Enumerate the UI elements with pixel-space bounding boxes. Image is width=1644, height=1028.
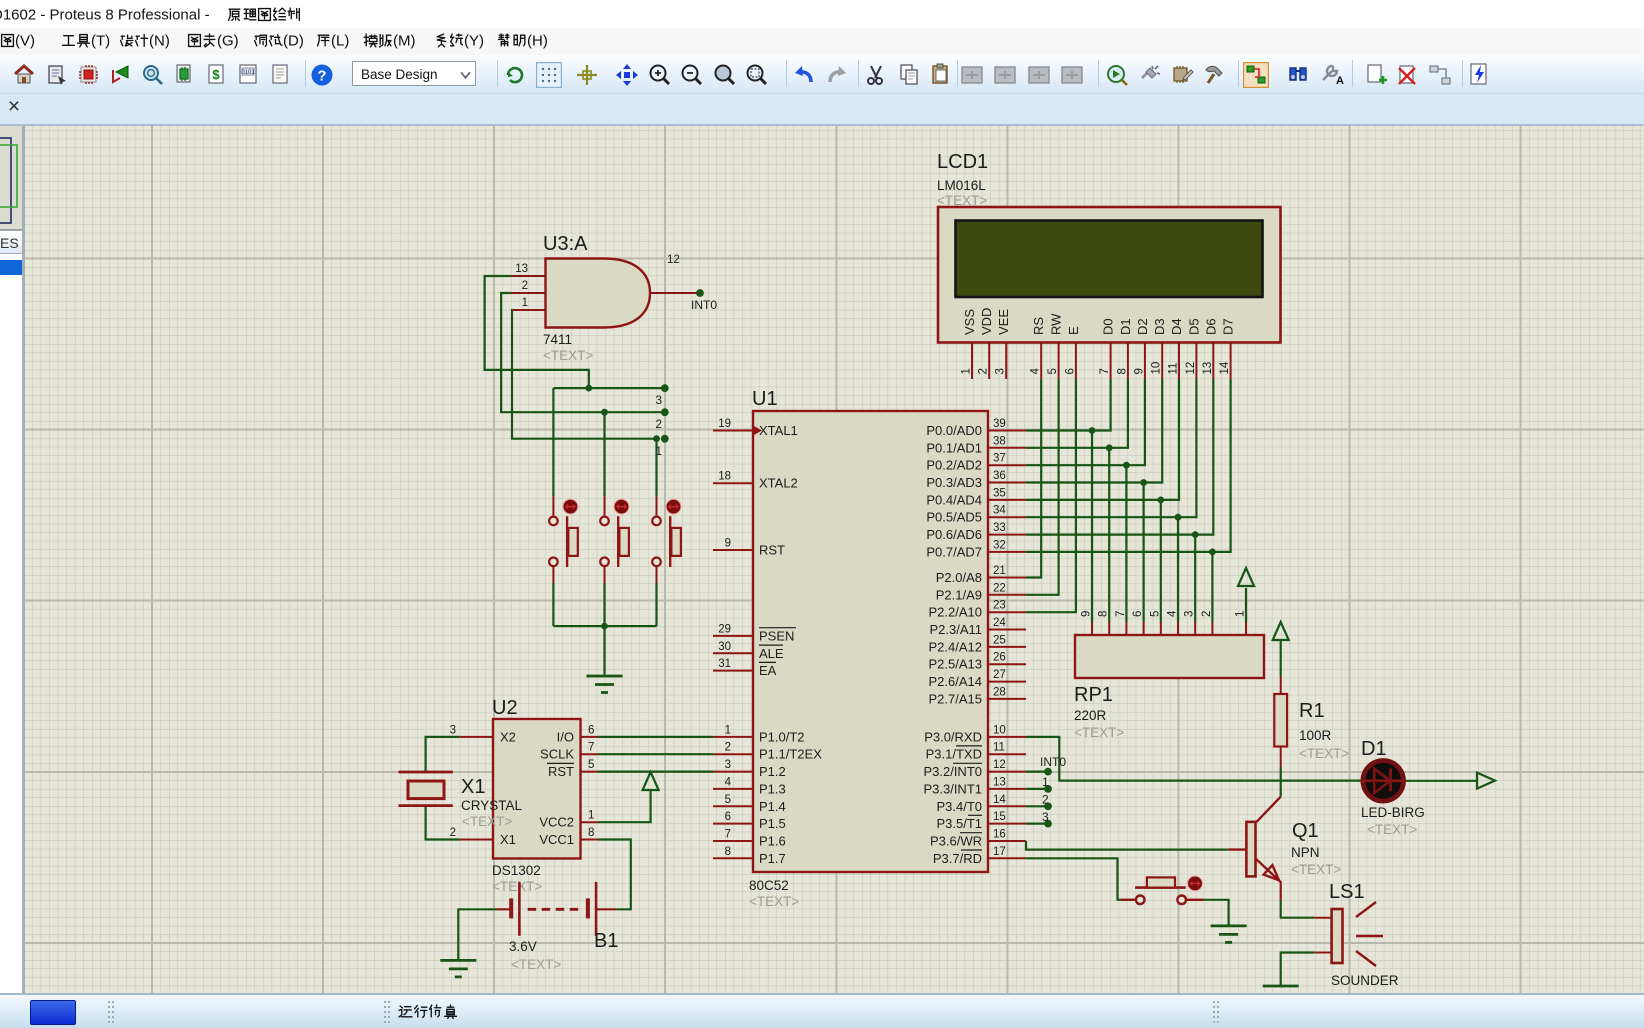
junction net3 [585,385,592,392]
svg-text:P2.3/A11: P2.3/A11 [929,622,982,637]
pin 6 P1.5 [713,811,786,831]
svg-text:8: 8 [725,846,731,858]
svg-text:E: E [1066,326,1081,335]
ground SW4 [1211,926,1247,943]
pin 39 P0.0/AD0 [926,418,1026,438]
pin 8 D1 [1116,318,1133,379]
resistor R1 100R [1274,640,1349,767]
svg-text:RW: RW [1049,313,1064,335]
svg-text:LED-BIRG: LED-BIRG [1361,805,1425,820]
LCD screen [956,221,1263,298]
wire P2.1 to LCD RW [1026,379,1059,595]
svg-text:P0.3/AD3: P0.3/AD3 [926,475,982,490]
wire bus to ground [603,626,605,675]
svg-text:$: $ [212,67,220,82]
pin 22 P2.1/A9 [936,582,1026,602]
pin 17 P3.7/RD [933,846,1026,866]
node terminal 1 [661,435,669,443]
pin 35 P0.4/AD4 [926,487,1026,507]
node output arrow [1477,773,1495,789]
wire VCC1 to battery [598,840,631,910]
pin 24 P2.3/A11 [929,617,1026,637]
svg-text:P2.7/A15: P2.7/A15 [929,691,983,706]
svg-text:18: 18 [718,471,731,483]
node terminal 1 [1044,785,1052,793]
svg-text:RS: RS [1031,317,1046,335]
svg-text:1: 1 [1235,611,1247,617]
svg-text:13: 13 [515,263,528,275]
svg-text:VCC2: VCC2 [539,815,574,830]
wire VCC2 to power [598,790,651,822]
svg-text:<TEXT>: <TEXT> [492,879,542,894]
node terminal 2 [661,408,669,416]
pin 9 D2 [1133,318,1150,379]
svg-text:30: 30 [718,641,731,653]
svg-text:37: 37 [993,453,1006,465]
LED D1 LED-BIRG [1361,738,1425,837]
wire LED to output arrow [1406,780,1477,782]
svg-text:P3.7/RD: P3.7/RD [933,851,982,866]
svg-text:LCD1: LCD1 [937,151,988,173]
svg-text:<TEXT>: <TEXT> [511,957,561,972]
wire SCLK to P1.1 [598,753,713,755]
svg-text:CRYSTAL: CRYSTAL [461,798,523,813]
pin 13 P3.3/INT1 [923,776,1026,796]
pin 23 P2.2/A10 [929,600,1027,620]
svg-text:(D): (D) [283,33,304,50]
wire net2 seg-b to button2 [603,412,605,496]
svg-text:35: 35 [993,487,1006,499]
svg-text:P1.3: P1.3 [759,781,786,796]
pin 28 P2.7/A15 [929,686,1027,706]
wire P3.6 to Q1 base [1026,841,1228,850]
pin 2 P1.1/T2EX [713,742,822,762]
overline RD [961,849,982,851]
pin 30 ALE [713,641,784,661]
wire RP1 pin9 vertical [1091,431,1093,623]
pin 5 P1.4 [713,794,786,814]
svg-text:5: 5 [725,794,731,806]
svg-text:B1: B1 [594,930,618,952]
wire P3.0 to LED D1 [1026,737,1361,781]
pin 8 P1.7 [713,846,786,866]
svg-text:I/O: I/O [557,729,574,744]
svg-text:(G): (G) [217,33,239,50]
svg-text:10: 10 [993,724,1006,736]
svg-text:P0.6/AD6: P0.6/AD6 [926,527,982,542]
svg-text:1: 1 [522,297,528,309]
svg-text:80C52: 80C52 [749,878,789,893]
svg-text:3: 3 [655,393,662,407]
crystal X1 [399,772,523,829]
pin 6 I/O [557,724,598,744]
junction D4/RP1 [1157,497,1164,504]
svg-text:P1.0/T2: P1.0/T2 [759,729,805,744]
svg-text:13: 13 [1202,362,1214,375]
wire button2 to bus [603,583,605,626]
wire P3.7 to SW4 [1026,858,1121,900]
pin 12 P3.2/INT0 [923,759,1026,779]
svg-text:3: 3 [450,724,456,736]
svg-text:4: 4 [725,776,732,788]
pin 3 X2 [450,724,516,744]
junction D6/RP1 [1192,531,1199,538]
svg-text:PSEN: PSEN [759,628,794,643]
svg-text:(V): (V) [15,33,35,50]
svg-text:9: 9 [1133,368,1145,374]
svg-text:?: ? [317,68,326,85]
svg-text:0101: 0101 [241,70,255,76]
svg-text:P0.2/AD2: P0.2/AD2 [926,458,982,473]
pin 2 [1201,611,1213,635]
overline TXD [956,745,982,747]
svg-text:ALE: ALE [759,646,784,661]
wire SW4 to ground [1204,900,1229,925]
svg-text:6: 6 [588,724,594,736]
junction D0/RP1 [1089,427,1096,434]
svg-text:XTAL1: XTAL1 [759,423,798,438]
svg-text:P3.2/INT0: P3.2/INT0 [923,764,982,779]
wire LS1 bottom to ground [1281,953,1315,986]
wire button common bus [553,625,656,627]
svg-text:5: 5 [1149,611,1161,617]
node terminal 3 [1044,820,1052,828]
wire X2 to crystal [426,737,460,771]
pin 3 [1184,611,1196,635]
junction net1 [653,435,660,442]
svg-text:R1: R1 [1299,700,1325,722]
svg-text:(N): (N) [149,33,170,50]
wire P0.2 to LCD D2 [1026,379,1145,465]
svg-text:DS1302: DS1302 [492,863,541,878]
wire pin to terminal 2 [1026,805,1048,807]
svg-text:2: 2 [655,417,662,431]
svg-text:D1: D1 [1118,318,1133,335]
svg-text:INT0: INT0 [691,298,717,312]
pin 1 P1.0/T2 [713,724,805,744]
pin 34 P0.5/AD5 [926,505,1026,525]
op-amp U3:A 7411 AND gate [511,233,700,363]
svg-text:P1.7: P1.7 [759,851,786,866]
node terminal 2 [1044,802,1052,810]
pin 16 P3.6/WR [930,829,1026,849]
svg-text:28: 28 [993,686,1006,698]
pin 2 X1 [450,827,516,847]
svg-text:2: 2 [450,827,456,839]
svg-text:100R: 100R [1299,728,1332,743]
pin 38 P0.1/AD1 [926,435,1026,455]
svg-text:31: 31 [718,658,731,670]
svg-text:INT0: INT0 [1040,755,1066,769]
svg-text:P0.4/AD4: P0.4/AD4 [926,492,982,507]
svg-text:A: A [1336,75,1344,87]
ground buttons [587,676,623,693]
svg-text:SCLK: SCLK [540,747,574,762]
junction D7/RP1 [1209,549,1216,556]
wire net3 seg-a [485,276,589,388]
svg-text:P3.5/T1: P3.5/T1 [936,816,982,831]
svg-text:2: 2 [725,742,731,754]
wire pin to terminal 3 [1026,822,1048,824]
svg-text:2: 2 [1201,611,1213,617]
transistor Q1 NPN [1228,797,1341,901]
svg-text:24: 24 [993,617,1006,629]
svg-text:14: 14 [1219,361,1231,374]
wire RP1 pin2 vertical [1211,552,1213,622]
wire pin to terminal INT0 [1026,770,1048,772]
switch SW3 (push button) [652,496,681,583]
pin 7 SCLK [540,742,598,762]
svg-text:36: 36 [993,470,1006,482]
svg-text:12: 12 [667,254,680,266]
pin 12 D5 [1185,318,1202,379]
U2 DS1302 RTC [450,697,598,894]
svg-text:P1.5: P1.5 [759,816,786,831]
svg-text:220R: 220R [1074,708,1107,723]
svg-text:<TEXT>: <TEXT> [462,814,512,829]
wire Q1 emitter to LS1 [1281,900,1315,917]
pin 14 D7 [1219,318,1236,379]
svg-text:X1: X1 [500,832,516,847]
svg-text:X2: X2 [500,729,516,744]
svg-text:U1: U1 [752,388,778,410]
pin 5 RST [548,759,598,779]
svg-text:1: 1 [725,724,731,736]
pin 9 [1081,611,1093,635]
battery B1 3.6V [497,882,619,972]
wire battery minus to ground [458,909,496,959]
wire RST to P1.2 [598,770,713,772]
pin 5 [1149,611,1161,635]
svg-text:23: 23 [993,600,1006,612]
svg-text:P1.4: P1.4 [759,799,786,814]
svg-text:8: 8 [588,827,594,839]
pin 15 P3.5/T1 [936,811,1026,831]
svg-text:<TEXT>: <TEXT> [1367,822,1417,837]
wire RP1 pin4 vertical [1177,517,1179,622]
svg-text:P0.5/AD5: P0.5/AD5 [926,510,982,525]
svg-text:22: 22 [993,582,1006,594]
pin 26 P2.5/A13 [929,652,1027,672]
svg-text:P2.6/A14: P2.6/A14 [929,674,983,689]
junction D2/RP1 [1123,462,1130,469]
wire P2.0 to LCD RS [1026,379,1041,578]
svg-text:4: 4 [1030,368,1042,375]
wire I/O to P1.0 [598,736,713,738]
node INT0 (gate output) [691,289,717,312]
junction button bus [601,623,608,630]
svg-text:<TEXT>: <TEXT> [1299,746,1349,761]
power +V RP1 [1238,568,1254,586]
svg-text:LM016L: LM016L [937,178,986,193]
svg-text:8: 8 [1116,368,1128,374]
svg-text:7411: 7411 [543,332,572,347]
svg-text:15: 15 [993,811,1006,823]
svg-text:29: 29 [718,623,731,635]
pin 6 [1132,611,1144,635]
svg-text:D2: D2 [1135,318,1150,335]
wire X1 to crystal [426,807,460,840]
svg-text:<TEXT>: <TEXT> [1291,862,1341,877]
wire P0.0 to LCD D0 [1026,379,1111,431]
svg-text:33: 33 [993,522,1006,534]
svg-text:(T): (T) [91,33,110,50]
svg-text:P2.2/A10: P2.2/A10 [929,605,983,620]
svg-text:7: 7 [725,829,731,841]
wire R1 to Q1 collector [1280,767,1282,797]
overline EA [759,661,776,663]
svg-text:11: 11 [993,742,1005,754]
wire P2.2 to LCD E [1026,379,1076,612]
wire net2 seg-a [501,293,665,412]
svg-text:1: 1 [655,444,662,458]
svg-text:19: 19 [718,418,731,430]
pin 6 E [1064,326,1081,379]
junction net2 [601,409,608,416]
svg-text:13: 13 [993,776,1006,788]
svg-text:P3.3/INT1: P3.3/INT1 [923,781,982,796]
wire RP1 pin6 vertical [1142,483,1144,623]
svg-text:(L): (L) [331,33,349,50]
overline PSEN [759,627,796,629]
svg-text:7: 7 [1099,368,1111,374]
svg-text:32: 32 [993,539,1006,551]
pin 18 XTAL2 [713,471,798,491]
wire RP1 pin1 to power [1245,588,1247,622]
svg-text:12: 12 [1185,362,1197,375]
pin 32 P0.7/AD7 [926,539,1026,559]
svg-text:2: 2 [978,368,990,374]
pin 31 EA [713,658,777,678]
svg-text:27: 27 [993,669,1006,681]
pin 4 P1.3 [713,776,786,796]
svg-text:4: 4 [1167,610,1179,617]
pin 10 D3 [1151,318,1168,379]
XTAL1 clock marker [753,426,762,436]
svg-text:VCC1: VCC1 [539,832,574,847]
svg-text:38: 38 [993,435,1006,447]
svg-text:(M): (M) [393,33,416,50]
speaker LS1 SOUNDER [1314,881,1399,988]
svg-text:1: 1 [588,810,594,822]
svg-text:P2.0/A8: P2.0/A8 [936,570,982,585]
node terminal INT0 [1044,768,1052,776]
wire P0.5 to LCD D5 [1026,379,1196,517]
svg-text:3: 3 [725,759,731,771]
svg-text:2: 2 [1042,793,1049,807]
resistor pack RP1 220R [1074,610,1264,740]
pin 8 [1098,611,1110,635]
wire P0.1 to LCD D1 [1026,379,1128,448]
svg-text:X1: X1 [461,776,485,798]
pin 36 P0.3/AD3 [926,470,1026,490]
svg-text:16: 16 [993,829,1006,841]
pin 10 P3.0/RXD [924,724,1026,744]
svg-text:25: 25 [993,634,1006,646]
svg-text:8: 8 [1098,611,1110,617]
wire pin to terminal 1 [1026,788,1048,790]
svg-text:(H): (H) [527,33,548,50]
svg-text:26: 26 [993,652,1006,664]
pin 11 P3.1/TXD [926,742,1026,762]
svg-text:P3.4/T0: P3.4/T0 [936,799,982,814]
svg-text:Q1: Q1 [1292,820,1319,842]
svg-text:9: 9 [725,538,731,550]
pin 1 VSS [961,309,978,379]
svg-text:EA: EA [759,663,777,678]
svg-text:17: 17 [993,846,1006,858]
overline WR [960,832,982,834]
svg-text:3: 3 [1184,611,1196,617]
svg-text:7: 7 [588,742,594,754]
pin 29 PSEN [713,623,794,643]
svg-text:D1: D1 [1361,738,1387,760]
U1 80C52 microcontroller [713,388,1026,909]
wire P0.6 to LCD D6 [1026,379,1213,535]
svg-text:D4: D4 [1169,318,1184,335]
svg-text:<TEXT>: <TEXT> [749,894,799,909]
svg-text:SOUNDER: SOUNDER [1331,973,1399,988]
U? LCD1 LM016L display [937,151,1281,379]
svg-text:U2: U2 [492,697,518,719]
svg-text:VEE: VEE [996,309,1011,335]
svg-text:P0.7/AD7: P0.7/AD7 [926,544,982,559]
pin 27 P2.6/A14 [929,669,1027,689]
svg-text:P3.0/RXD: P3.0/RXD [924,729,982,744]
pin 11 D4 [1168,318,1185,379]
svg-text:RST: RST [548,764,574,779]
node terminal 3 [661,384,669,392]
wire P0.7 to LCD D7 [1026,379,1231,552]
wire button1 to bus [552,583,554,626]
pin 3 P1.2 [713,759,786,779]
wire net3 seg-b [553,387,664,389]
pin 7 [1115,611,1127,635]
wire net1 seg-a [511,310,657,439]
svg-text:5: 5 [1047,368,1059,374]
svg-text:21: 21 [993,565,1006,577]
pin 3 VEE [995,309,1012,379]
svg-text:XTAL2: XTAL2 [759,476,798,491]
power +V R1 top [1273,622,1289,640]
wire RP1 pin8 vertical [1108,448,1110,622]
switch SW1 (push button) [549,496,578,583]
svg-text:D7: D7 [1221,318,1236,335]
svg-text:P0.0/AD0: P0.0/AD0 [926,423,982,438]
pin 14 P3.4/T0 [936,794,1026,814]
svg-text:6: 6 [1064,368,1076,374]
svg-text:P2.5/A13: P2.5/A13 [929,657,983,672]
pin 8 VCC1 [539,827,598,847]
svg-text:5: 5 [588,759,594,771]
svg-text:(Y): (Y) [464,33,484,50]
power +V VCC2 [643,772,659,790]
pin 37 P0.2/AD2 [926,453,1026,473]
switch SW4 (push button horizontal) [1121,876,1204,904]
svg-text:1: 1 [961,368,973,374]
pin 5 RW [1047,313,1064,379]
ground LS1 [1263,986,1299,1003]
svg-text:10: 10 [1151,362,1163,375]
junction D1/RP1 [1106,444,1113,451]
pin 7 P1.6 [713,829,786,849]
svg-text:D3: D3 [1152,318,1167,335]
svg-text:P1.2: P1.2 [759,764,786,779]
svg-text:6: 6 [1132,611,1144,617]
svg-text:RP1: RP1 [1074,684,1113,706]
wire RP1 pin5 vertical [1160,500,1162,622]
svg-text:D6: D6 [1203,318,1218,335]
